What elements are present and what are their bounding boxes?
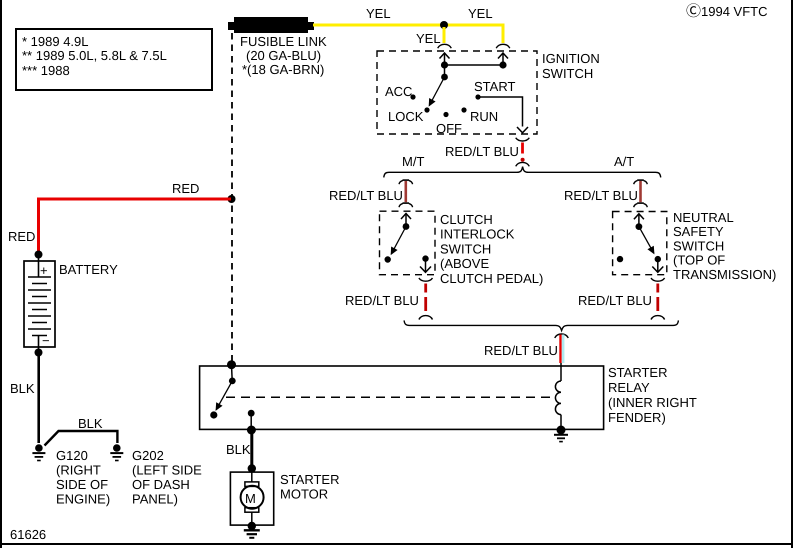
neutral switch input pin arrow: [634, 214, 644, 227]
wire YEL junction drop to left ignition feed: [443, 27, 446, 43]
svg-text:Ⓒ1994 VFTC: Ⓒ1994 VFTC: [686, 3, 768, 20]
node relay battery terminal: [227, 360, 236, 369]
connector C M/T stub upper half: [403, 179, 410, 181]
ground G120: [32, 444, 45, 460]
svg-text:BLK: BLK: [78, 416, 103, 431]
node contact START: [475, 94, 480, 99]
svg-text:IGNITION: IGNITION: [542, 51, 600, 66]
svg-text:G120: G120: [56, 448, 88, 463]
svg-text:FUSIBLE LINK: FUSIBLE LINK: [240, 34, 327, 49]
connector C clutch output upper half: [419, 278, 433, 281]
svg-text:RED/LT BLU: RED/LT BLU: [578, 293, 652, 308]
node contact ACC: [410, 94, 415, 99]
node contact LOCK: [424, 107, 429, 112]
wire RED/LT BLU M/T stub: [404, 181, 407, 202]
ignition rotor lever: [429, 77, 444, 106]
clutch switch lever: [391, 227, 406, 255]
node contact OFF: [443, 112, 448, 117]
ignition switch box (dashed): [377, 51, 537, 134]
node contact RUN: [461, 107, 466, 112]
node relay pivot: [229, 378, 236, 385]
svg-text:61626: 61626: [10, 527, 46, 542]
svg-text:OF DASH: OF DASH: [132, 477, 190, 492]
fusible link F1: [228, 17, 314, 33]
svg-text:+: +: [40, 263, 48, 278]
connector C clutch output lower half: [419, 316, 433, 320]
wire RED/LT BLU A/T stub: [639, 181, 642, 202]
node relay output contact: [248, 410, 255, 417]
node clutch switch pivot: [403, 223, 410, 230]
svg-text:RELAY: RELAY: [608, 380, 650, 395]
ground relay coil: [554, 435, 568, 442]
wire BLK jumper G120 to G202: [45, 431, 118, 446]
ignition feed pin arrow right: [498, 53, 508, 65]
svg-text:RED: RED: [8, 229, 35, 244]
relay coil L1: [555, 363, 561, 430]
page border left: [0, 0, 2, 548]
node starter motor terminal: [248, 464, 256, 472]
neutral safety switch box (dashed): [613, 212, 667, 275]
wire START contact to output: [478, 97, 523, 127]
svg-text:(ABOVE: (ABOVE: [440, 256, 489, 271]
node neutral switch fixed contact: [617, 256, 623, 262]
ignition feed pin arrow left: [440, 53, 450, 65]
svg-text:A/T: A/T: [614, 154, 634, 169]
connector C ignition output upper half: [516, 138, 530, 141]
svg-text:G202: G202: [132, 448, 164, 463]
svg-text:(TOP OF: (TOP OF: [673, 253, 725, 268]
ignition switch label: [542, 51, 600, 81]
node relay coil ground terminal: [557, 426, 566, 435]
wire BLK relay to starter motor: [250, 430, 253, 468]
fusible link label: [240, 34, 327, 77]
svg-text:RED/LT BLU: RED/LT BLU: [445, 144, 519, 159]
svg-text:TRANSMISSION): TRANSMISSION): [673, 267, 776, 282]
node neutral switch output contact: [655, 256, 661, 262]
connector C ignition output lower half: [516, 162, 530, 166]
brace merging M/T and A/T to relay: [404, 320, 678, 330]
svg-text:*(18 GA-BRN): *(18 GA-BRN): [242, 62, 324, 77]
wire dashed from fusible link down to relay: [231, 33, 233, 363]
svg-text:RUN: RUN: [470, 109, 498, 124]
svg-text:MOTOR: MOTOR: [280, 487, 328, 502]
node relay output terminal: [247, 426, 256, 435]
svg-text:STARTER: STARTER: [280, 472, 339, 487]
brace splitting to M/T and A/T: [384, 167, 661, 178]
connector C A/T stub lower half: [637, 202, 644, 204]
svg-text:RED/LT BLU: RED/LT BLU: [564, 188, 638, 203]
node battery positive terminal: [35, 251, 43, 259]
svg-text:YEL: YEL: [468, 6, 493, 21]
relay contact lever: [216, 381, 232, 410]
wire YEL fusible link to junction: [313, 24, 444, 27]
svg-text:(LEFT SIDE: (LEFT SIDE: [132, 463, 202, 478]
svg-text:YEL: YEL: [416, 31, 441, 46]
svg-text:M/T: M/T: [402, 154, 424, 169]
wire RED battery to junction: [39, 199, 232, 253]
node yellow junction: [440, 21, 448, 29]
svg-text:START: START: [474, 79, 515, 94]
connector C relay feed: [555, 334, 569, 338]
svg-text:LOCK: LOCK: [388, 109, 424, 124]
svg-text:RED/LT BLU: RED/LT BLU: [329, 188, 403, 203]
clutch interlock switch box (dashed): [380, 211, 436, 275]
node ignition common right: [499, 61, 506, 68]
svg-text:STARTER: STARTER: [608, 365, 667, 380]
svg-text:FENDER): FENDER): [608, 410, 666, 425]
legend box: [16, 29, 212, 90]
ground G202: [110, 444, 123, 460]
neutral switch output arrow down: [652, 259, 663, 272]
clutch switch output arrow down: [420, 259, 431, 273]
node battery negative terminal: [35, 349, 43, 357]
svg-text:INTERLOCK: INTERLOCK: [440, 227, 515, 242]
neutral switch lever: [639, 227, 654, 254]
wire YEL junction to right ignition feed: [444, 25, 503, 43]
connector C A/T stub upper half: [637, 179, 644, 181]
svg-text:OFF: OFF: [436, 121, 462, 136]
node starter motor ground terminal: [248, 522, 256, 530]
svg-text:*** 1988: *** 1988: [22, 63, 70, 78]
page border right: [791, 0, 793, 548]
connector C neutral output lower half: [651, 316, 665, 320]
svg-text:(RIGHT: (RIGHT: [56, 463, 101, 478]
neutral safety switch label: [673, 210, 776, 282]
svg-text:SAFETY: SAFETY: [673, 224, 724, 239]
connector C M/T stub lower half: [403, 202, 410, 204]
svg-text:NEUTRAL: NEUTRAL: [673, 210, 734, 225]
starter relay box: [200, 366, 604, 429]
node red dot on connector: [521, 158, 525, 162]
svg-text:−: −: [42, 333, 50, 348]
svg-text:SWITCH: SWITCH: [673, 238, 724, 253]
svg-text:M: M: [245, 491, 256, 506]
svg-text:RED/LT BLU: RED/LT BLU: [484, 343, 558, 358]
wire RED/LT BLU dashed neutral lower stub: [656, 284, 659, 312]
svg-text:** 1989 5.0L, 5.8L & 7.5L: ** 1989 5.0L, 5.8L & 7.5L: [22, 48, 167, 63]
connector C neutral output upper half: [651, 278, 665, 281]
starter motor M1: [230, 469, 273, 527]
relay actuation dashed link: [226, 396, 556, 398]
starter relay label: [608, 365, 697, 425]
wire ignition common bus: [445, 64, 504, 66]
clutch interlock switch label: [440, 212, 543, 286]
connector C left ignition feed: [438, 44, 452, 48]
svg-text:RED: RED: [172, 181, 199, 196]
page border bottom: [0, 543, 793, 545]
svg-text:BATTERY: BATTERY: [59, 262, 118, 277]
svg-text:SWITCH: SWITCH: [440, 241, 491, 256]
wire ignition common to rotor pivot: [444, 65, 446, 77]
label STARTER MOTOR: [280, 472, 339, 502]
wire RED/LT BLU relay coil feed: [561, 335, 564, 364]
node clutch switch output contact: [422, 255, 428, 261]
svg-text:* 1989 4.9L: * 1989 4.9L: [22, 34, 89, 49]
connector C right ignition feed: [496, 44, 510, 48]
svg-text:RED/LT BLU: RED/LT BLU: [345, 293, 419, 308]
ignition output arrow down: [517, 127, 528, 133]
node relay fixed contact: [210, 411, 217, 418]
svg-text:BLK: BLK: [10, 381, 35, 396]
svg-text:CLUTCH: CLUTCH: [440, 212, 493, 227]
svg-text:(INNER RIGHT: (INNER RIGHT: [608, 395, 697, 410]
svg-text:(20 GA-BLU): (20 GA-BLU): [246, 48, 321, 63]
node neutral switch pivot: [636, 223, 643, 230]
node junction RED wire on dashed line: [228, 195, 236, 203]
svg-text:SWITCH: SWITCH: [542, 66, 593, 81]
svg-text:ENGINE): ENGINE): [56, 492, 110, 507]
label G120: [56, 448, 110, 507]
svg-text:CLUTCH PEDAL): CLUTCH PEDAL): [440, 271, 543, 286]
svg-text:YEL: YEL: [366, 6, 391, 21]
node ignition rotor pivot: [441, 74, 448, 81]
wire relay output to box edge: [250, 413, 252, 429]
node clutch switch fixed contact: [385, 256, 391, 262]
battery B1: [24, 254, 55, 353]
ground starter motor: [244, 530, 260, 538]
clutch switch input pin arrow: [401, 214, 411, 227]
svg-text:SIDE OF: SIDE OF: [56, 477, 108, 492]
wire RED/LT BLU dashed clutch lower stub: [424, 284, 427, 312]
wire RED/LT BLU ignition output stub: [521, 143, 524, 154]
svg-text:BLK: BLK: [226, 442, 251, 457]
label G202: [132, 448, 202, 507]
wire relay pivot stem: [231, 365, 234, 381]
wire BLK battery to G120: [37, 353, 40, 443]
node ignition common left: [441, 61, 448, 68]
svg-text:PANEL): PANEL): [132, 492, 178, 507]
svg-text:ACC: ACC: [385, 84, 412, 99]
